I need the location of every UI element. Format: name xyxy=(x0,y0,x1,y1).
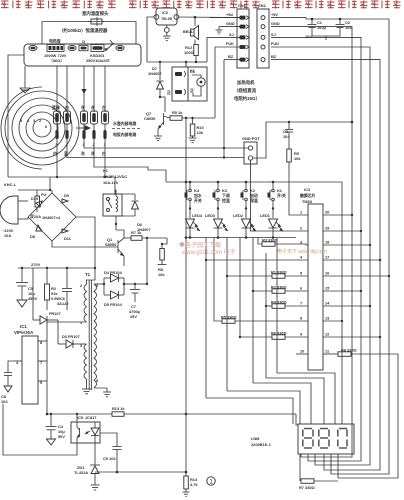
wire D6 loop xyxy=(115,193,135,195)
wire pin20 tap xyxy=(323,214,352,216)
svg-text:GND PGT: GND PGT xyxy=(242,136,260,141)
svg-text:50V: 50V xyxy=(58,434,65,439)
ground under Q7 xyxy=(154,136,162,141)
wire bus y237.5 xyxy=(186,237,296,239)
resistor R10 10k xyxy=(190,118,204,138)
svg-text:100μ: 100μ xyxy=(317,25,326,30)
pushbutton K1 xyxy=(268,182,286,218)
plug pin xyxy=(29,45,37,50)
wire feedback bottom to ground xyxy=(86,379,88,389)
svg-text:室内温度探头: 室内温度探头 xyxy=(82,10,109,17)
svg-text:控温: 控温 xyxy=(222,198,230,203)
svg-text:开关: 开关 xyxy=(194,198,202,203)
svg-text:FU: FU xyxy=(41,192,46,197)
ground xyxy=(20,66,30,93)
page mark 1 xyxy=(207,477,215,485)
resistor R9 10k xyxy=(287,144,302,170)
diode D9 xyxy=(62,199,68,203)
svg-text:FUK: FUK xyxy=(226,41,234,46)
resistor R13 1k xyxy=(112,406,298,425)
svg-text:R7 330Ω: R7 330Ω xyxy=(299,485,315,490)
LED4 xyxy=(186,213,203,238)
connector plug 4 xyxy=(64,111,71,124)
svg-text:R7 1k: R7 1k xyxy=(131,230,142,235)
wire left nest into display top xyxy=(206,398,293,424)
wire primary pin1 to IC1 drain xyxy=(47,321,87,323)
wire IC1 drain vertical xyxy=(46,322,48,414)
svg-text:SJ: SJ xyxy=(229,32,234,37)
wire pin4 xyxy=(206,259,308,261)
diode D8 xyxy=(36,225,42,231)
resistor R6 330Ω xyxy=(271,331,308,340)
svg-text:D9: D9 xyxy=(64,193,70,198)
wire coil arrow xyxy=(76,126,90,130)
wire pin15 tap xyxy=(323,290,361,292)
wire top rail to relay section xyxy=(147,61,196,63)
svg-text:10V: 10V xyxy=(305,34,312,39)
svg-text:10k: 10k xyxy=(197,130,204,135)
title text middle xyxy=(129,0,260,8)
resistor R14 4.7k xyxy=(183,476,199,496)
svg-text:D5 FR104: D5 FR104 xyxy=(104,302,123,307)
wire main ground bus x186 xyxy=(185,62,187,67)
wire GND vertical x352 xyxy=(271,27,352,457)
svg-text:BZ: BZ xyxy=(271,54,277,59)
IC3 pin numbers left xyxy=(300,210,304,354)
svg-text:灰: 灰 xyxy=(81,105,85,110)
svg-text:（约100kΩ）恒温温控器: （约100kΩ）恒温温控器 xyxy=(59,27,108,34)
svg-text:VIPer20A: VIPer20A xyxy=(14,330,34,335)
wire IC2 output +5V xyxy=(179,16,240,19)
diode D6 1N4007 xyxy=(132,194,151,232)
svg-text:17: 17 xyxy=(325,255,329,260)
7-segment display module xyxy=(298,424,354,454)
title text right xyxy=(272,0,401,8)
wire R3 column x206 xyxy=(205,238,207,399)
svg-text:10: 10 xyxy=(300,349,304,354)
svg-text:103: 103 xyxy=(1,399,8,404)
wire bus corner down x342 xyxy=(341,182,343,424)
wire bottom rail y472 xyxy=(95,471,186,473)
svg-text:7: 7 xyxy=(300,301,302,306)
wire drops to plugs xyxy=(56,66,58,112)
svg-text:电子天下 www.dg.com: 电子天下 www.dg.com xyxy=(277,248,327,255)
wire vertical x215 xyxy=(214,47,216,118)
svg-text:开/关: 开/关 xyxy=(277,193,286,198)
svg-text:IC5: IC5 xyxy=(77,415,84,420)
wire plug1 down xyxy=(104,139,106,177)
connector plug 3 xyxy=(81,111,88,124)
connector plug 2 xyxy=(91,111,98,124)
LED1 xyxy=(260,213,283,238)
svg-text:4.7k: 4.7k xyxy=(190,482,198,487)
plug pin xyxy=(116,45,124,50)
svg-text:正: 正 xyxy=(190,88,194,93)
capacitor C5 10u450V xyxy=(16,268,37,307)
wire pin2 left xyxy=(251,160,309,231)
thermostat KSD301 xyxy=(86,45,111,64)
wire plug5 down xyxy=(56,139,58,177)
core xyxy=(88,280,90,390)
svg-text:BELL: BELL xyxy=(183,29,194,34)
svg-text:+5V: +5V xyxy=(271,12,278,17)
capacitor C2 104 xyxy=(336,19,353,34)
heater tube 电热管 xyxy=(44,39,67,64)
svg-text:LNM: LNM xyxy=(251,436,259,441)
svg-text:电阻约30Ω）: 电阻约30Ω） xyxy=(234,95,260,102)
diode D11 xyxy=(62,229,68,233)
IC3 pin numbers right xyxy=(325,210,330,354)
wire FUD vertical x370 xyxy=(271,47,370,465)
wire SJ vertical x361 xyxy=(271,37,361,461)
svg-text:C8050: C8050 xyxy=(144,116,155,121)
svg-text:OK3F-12VDC: OK3F-12VDC xyxy=(103,174,127,179)
svg-text:D3 FR107: D3 FR107 xyxy=(62,334,80,339)
digit 1 xyxy=(303,429,313,449)
svg-text:K1: K1 xyxy=(103,168,109,173)
svg-text:白: 白 xyxy=(102,105,106,110)
wire IC2 input xyxy=(147,17,154,62)
wire D7 to Q7 collector xyxy=(160,97,165,112)
feedback winding xyxy=(84,344,87,379)
ground under IC2 xyxy=(163,32,171,40)
heater motor box xyxy=(188,67,207,101)
digit 3 xyxy=(338,429,347,449)
wire display column x277 xyxy=(276,238,278,374)
svg-text:www.gzdz.com 电子: www.gzdz.com 电子 xyxy=(181,248,236,256)
transistor Q7 C8050 xyxy=(144,111,170,136)
wire BZ vertical x380 xyxy=(271,60,380,470)
capacitor C6 3A12J xyxy=(57,268,72,310)
resistor R12 100Ω xyxy=(184,45,198,63)
wire R4 column x266 xyxy=(265,253,267,378)
IC3 microcontroller xyxy=(300,187,323,370)
svg-text:电饭内部电路: 电饭内部电路 xyxy=(113,132,136,137)
svg-text:3A12J: 3A12J xyxy=(57,301,68,306)
diode D7 1N4007 xyxy=(148,62,164,97)
lower pins row2 xyxy=(55,130,58,139)
title text left xyxy=(1,0,116,8)
wire lower-left feeders xyxy=(8,176,115,178)
wire PGT right up to C3 xyxy=(253,122,289,158)
svg-text:（绕组直流: （绕组直流 xyxy=(234,87,257,94)
transistor Q1 S8050 xyxy=(105,224,124,266)
wire SJ down xyxy=(206,37,208,62)
heating plate spiral coil xyxy=(1,87,79,169)
plug pin xyxy=(68,45,76,50)
wire pin13 tap xyxy=(323,320,342,322)
svg-text:100Ω: 100Ω xyxy=(184,50,194,55)
switch xyxy=(106,43,114,50)
wire bridge to Q1 base xyxy=(52,241,118,247)
pushbutton K3 xyxy=(213,182,230,218)
wire relay feeds xyxy=(115,190,116,196)
relay K1 contact box xyxy=(167,62,196,101)
wire cap ground bus xyxy=(312,34,340,36)
svg-text:FR107: FR107 xyxy=(49,311,61,316)
resistor R2 51k xyxy=(45,268,61,310)
svg-text:104: 104 xyxy=(345,25,352,30)
pushbutton K4 xyxy=(185,182,202,218)
mains plug xyxy=(0,196,28,238)
svg-text:10k: 10k xyxy=(158,272,165,277)
wire pin10 stub xyxy=(296,353,308,355)
resistor R1 330Ω xyxy=(271,270,308,279)
diode D10 xyxy=(36,201,42,207)
zener ZD2 FR107 xyxy=(33,268,61,344)
svg-text:KHC-L: KHC-L xyxy=(4,182,17,187)
svg-text:BZ: BZ xyxy=(228,54,234,59)
svg-text:CN1: CN1 xyxy=(238,3,247,8)
capacitor C8 + ground left of IC1 xyxy=(1,361,14,404)
svg-text:IC3: IC3 xyxy=(304,187,311,192)
svg-text:270V: 270V xyxy=(31,262,40,267)
fuse FU xyxy=(29,190,46,219)
capacitor C9 104 xyxy=(100,433,122,472)
svg-text:10A-12V: 10A-12V xyxy=(103,180,119,185)
svg-text:灰: 灰 xyxy=(91,105,95,110)
bell xyxy=(183,17,199,44)
wire +12V to relay area xyxy=(146,238,148,284)
svg-text:250V10A/25T: 250V10A/25T xyxy=(86,58,111,63)
pushbutton K2 xyxy=(241,182,258,218)
dashed boundary xyxy=(112,128,140,130)
svg-text:TM63: TM63 xyxy=(302,199,313,204)
svg-text:D11: D11 xyxy=(64,236,72,241)
resistor R7 1k xyxy=(124,230,167,240)
capacitor C4 10u 50V xyxy=(46,413,66,445)
LED3 xyxy=(205,213,228,238)
wire vertical x224 xyxy=(223,60,225,158)
svg-text:FUD: FUD xyxy=(271,41,279,46)
svg-text:JC817: JC817 xyxy=(85,415,96,420)
wire R5 column x214 xyxy=(214,238,222,322)
svg-text:10A: 10A xyxy=(4,233,11,238)
svg-text:1N4007×4: 1N4007×4 xyxy=(42,215,61,220)
wire +5V rail top right xyxy=(271,17,306,19)
svg-text:电热管: 电热管 xyxy=(49,39,61,44)
wire bridge right output xyxy=(76,217,95,268)
svg-text:触摸芯片: 触摸芯片 xyxy=(300,193,316,198)
svg-text:LED3: LED3 xyxy=(205,213,216,218)
wire bottom rail y414 xyxy=(47,413,112,415)
resistor R7 330Ω bottom xyxy=(299,454,338,490)
svg-text:R13 1k: R13 1k xyxy=(112,406,125,411)
svg-text:1: 1 xyxy=(209,479,213,486)
wire opto emitter loop xyxy=(3,404,77,455)
capacitor C7 4700u xyxy=(129,284,141,319)
LED2 xyxy=(233,213,256,238)
svg-text:CN1: CN1 xyxy=(258,3,267,8)
connector plug 5 xyxy=(54,111,61,124)
svg-text:LED4: LED4 xyxy=(192,213,203,218)
resistor R8 10k xyxy=(158,238,168,277)
svg-text:IC2: IC2 xyxy=(162,10,169,15)
digit 2 xyxy=(319,429,329,449)
optocoupler IC5 JC817 xyxy=(71,415,100,443)
IC1 VIPer20A xyxy=(14,324,47,404)
svg-text:Ω: Ω xyxy=(82,39,85,44)
svg-text:加热电机: 加热电机 xyxy=(236,79,255,86)
wire 270V to primary xyxy=(87,268,96,284)
svg-text:LED1: LED1 xyxy=(260,213,271,218)
svg-text:T1: T1 xyxy=(85,272,91,277)
wire R1 column x227 xyxy=(226,238,228,392)
wire pin18 tap xyxy=(323,244,370,246)
wire pin3 tap with R3 xyxy=(258,238,262,245)
wire across to right bus xyxy=(289,121,352,123)
svg-text:20: 20 xyxy=(325,210,329,215)
wire +12V rail right xyxy=(135,283,147,285)
transformer T1 xyxy=(80,272,99,390)
svg-text:正: 正 xyxy=(167,90,171,95)
wire left enclosure xyxy=(8,55,24,177)
svg-text:C1: C1 xyxy=(190,69,196,74)
svg-text:C9 104: C9 104 xyxy=(103,456,116,461)
diode D3 FR107 xyxy=(58,334,87,348)
svg-text:S8050: S8050 xyxy=(105,242,116,247)
svg-text:25V: 25V xyxy=(130,314,137,319)
wire plug4 to PGT row xyxy=(67,139,244,158)
svg-text:D10: D10 xyxy=(31,196,38,201)
capacitor C1 100u xyxy=(305,19,326,39)
wire +5V vertical x389 xyxy=(331,19,389,474)
wire pin1 left xyxy=(289,170,308,215)
resistor R2 330Ω xyxy=(271,285,308,294)
wire R6 column x240 xyxy=(239,238,241,338)
svg-text:SJ: SJ xyxy=(271,32,276,37)
primary winding xyxy=(84,284,87,322)
relay K1 coil box xyxy=(103,168,127,216)
capacitor C3 104 xyxy=(283,122,293,144)
wire probe right lead xyxy=(102,22,136,45)
svg-text:D4 FR104: D4 FR104 xyxy=(104,270,123,275)
svg-text:GND: GND xyxy=(271,21,280,26)
wire pin16 tap xyxy=(323,275,389,277)
ground under R10 xyxy=(189,138,197,143)
wire bridge top up xyxy=(51,190,53,193)
resistor R5 330Ω xyxy=(221,315,308,324)
svg-text:+5d: +5d xyxy=(226,12,233,17)
wire plug3 to PGT pin1 xyxy=(84,139,248,148)
connector GND PGT xyxy=(242,136,260,164)
temperature probe xyxy=(59,10,109,34)
connector CN1 left xyxy=(237,3,249,68)
svg-text:◆电子园工下载: ◆电子园工下载 xyxy=(179,241,221,249)
wire probe left lead xyxy=(42,22,91,45)
svg-text:水壶内部电路: 水壶内部电路 xyxy=(112,121,136,126)
wire secondary bottom to ground xyxy=(94,388,107,392)
svg-text:IC1: IC1 xyxy=(20,324,27,329)
diode D5 FR104 xyxy=(104,291,124,307)
secondary winding xyxy=(94,284,97,388)
svg-text:LED2: LED2 xyxy=(233,213,244,218)
wire R2 column x253 xyxy=(252,238,254,384)
ground at CN1 GND xyxy=(216,27,223,34)
resistor R5 1k xyxy=(170,110,215,120)
wire plug2 feed to bus xyxy=(94,139,166,182)
wire stubs left of CN1 xyxy=(210,17,240,19)
svg-text:78L05: 78L05 xyxy=(161,16,173,21)
wires diodes join xyxy=(103,278,105,295)
svg-text:（36Ω）: （36Ω） xyxy=(49,58,64,63)
wire pin12 tap xyxy=(323,336,380,338)
wire bus y182 xyxy=(166,181,342,183)
bridge rectifier 1N4007x4 xyxy=(28,193,76,241)
wire pin19 tap xyxy=(323,230,361,232)
resistor R8 330Ω on pin11 xyxy=(323,348,398,479)
svg-text:10k: 10k xyxy=(294,156,301,161)
svg-text:R5 1k: R5 1k xyxy=(172,110,183,115)
svg-text:TL431A: TL431A xyxy=(74,470,88,475)
zener ZD1 TL431 xyxy=(74,443,100,490)
resistor R4 330Ω xyxy=(271,300,308,309)
svg-text:GND: GND xyxy=(226,21,235,26)
connector plug 1 xyxy=(102,111,109,124)
wire pin14 tap xyxy=(323,305,370,307)
wire pin17 tap xyxy=(323,259,380,261)
IC2 78L05 regulator xyxy=(154,8,179,32)
connector CN1 right xyxy=(257,3,269,68)
diode D4 FR104 xyxy=(104,270,124,282)
svg-text:灰: 灰 xyxy=(81,151,85,156)
heater loop wire xyxy=(24,44,141,66)
svg-text:2200B1K-1: 2200B1K-1 xyxy=(251,442,272,447)
svg-text:D8: D8 xyxy=(30,234,36,239)
